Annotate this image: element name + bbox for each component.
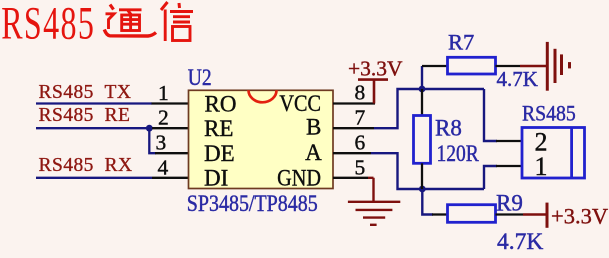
svg-text:RS485: RS485 (1, 0, 95, 49)
R9 left lead (432, 213, 448, 215)
wire TX (36, 102, 152, 104)
R8 top pin (421, 89, 423, 116)
svg-text:1: 1 (158, 81, 169, 105)
svg-text:SP3485/TP8485: SP3485/TP8485 (187, 190, 318, 216)
wire R9 drop (422, 189, 433, 215)
pin 5 stub (333, 177, 368, 179)
power +3.3V bottom right (523, 203, 547, 228)
svg-text:RS485: RS485 (522, 101, 576, 126)
svg-text:RE: RE (204, 116, 233, 141)
junction RE/pin3 (146, 125, 153, 132)
R9 right lead (496, 213, 524, 215)
svg-text:5: 5 (355, 155, 366, 179)
svg-text:R8: R8 (435, 115, 462, 140)
pin 2 stub (152, 127, 189, 129)
svg-text:DI: DI (204, 166, 228, 191)
pin 3 stub (155, 152, 189, 154)
pin 1 stub (152, 102, 190, 104)
power +3.3V top at pin 8 (358, 80, 388, 104)
svg-text:RS485 RE: RS485 RE (39, 105, 131, 126)
wire RE (36, 127, 149, 129)
R7 right lead (496, 65, 521, 67)
resistor R8 (414, 116, 431, 164)
svg-text:4.7K: 4.7K (497, 229, 543, 255)
svg-text:DE: DE (204, 141, 235, 166)
ground at pin 5 (348, 178, 400, 225)
earth symbol right of R7 (520, 42, 570, 91)
svg-text:B: B (306, 115, 321, 140)
resistor R9 (448, 205, 496, 223)
R8 bottom pin (421, 163, 423, 189)
svg-text:RS485 TX: RS485 TX (39, 82, 132, 103)
connector pin 2 stub (496, 140, 522, 142)
svg-text:+3.3V: +3.3V (348, 56, 403, 80)
title hanzi TONG (104, 5, 156, 37)
svg-text:A: A (305, 140, 322, 165)
svg-text:7: 7 (355, 106, 366, 130)
wire R7 drop (421, 66, 423, 89)
svg-text:4.7K: 4.7K (497, 67, 538, 91)
svg-text:+3.3V: +3.3V (551, 204, 608, 229)
svg-text:VCC: VCC (279, 91, 321, 116)
svg-text:R7: R7 (448, 30, 474, 55)
svg-text:8: 8 (355, 81, 366, 105)
wire B to top rail (374, 89, 484, 128)
svg-text:120R: 120R (437, 141, 480, 167)
wire bottom rail to connector pin 1 (484, 166, 497, 189)
title hanzi XIN (161, 2, 193, 41)
R7 left lead (422, 65, 448, 67)
svg-text:1: 1 (535, 152, 548, 181)
svg-text:RS485 RX: RS485 RX (39, 155, 133, 176)
pin 7 stub (333, 127, 374, 129)
svg-text:6: 6 (355, 131, 366, 155)
IC notch arc (249, 90, 277, 102)
wire top rail to connector pin 2 (484, 89, 497, 141)
svg-text:2: 2 (158, 106, 169, 130)
svg-text:U2: U2 (188, 65, 212, 91)
wire RE to pin3 (149, 128, 156, 153)
pin 8 stub (333, 102, 375, 104)
svg-text:4: 4 (158, 155, 169, 179)
pin 6 stub (333, 152, 371, 154)
wire RX (36, 177, 152, 179)
connector divider (570, 128, 573, 179)
connector J RS485 body (522, 128, 585, 179)
junction top rail / R8 (419, 86, 426, 93)
pin 4 stub (152, 177, 189, 179)
wire A to bottom rail (371, 153, 484, 189)
svg-text:GND: GND (277, 165, 321, 190)
svg-text:3: 3 (156, 131, 167, 155)
svg-text:R9: R9 (496, 191, 523, 216)
junction bottom rail / R8 (419, 186, 426, 193)
svg-text:RO: RO (205, 91, 237, 116)
IC U2 body (189, 90, 334, 188)
connector pin 1 stub (496, 165, 522, 167)
resistor R7 (448, 57, 496, 74)
